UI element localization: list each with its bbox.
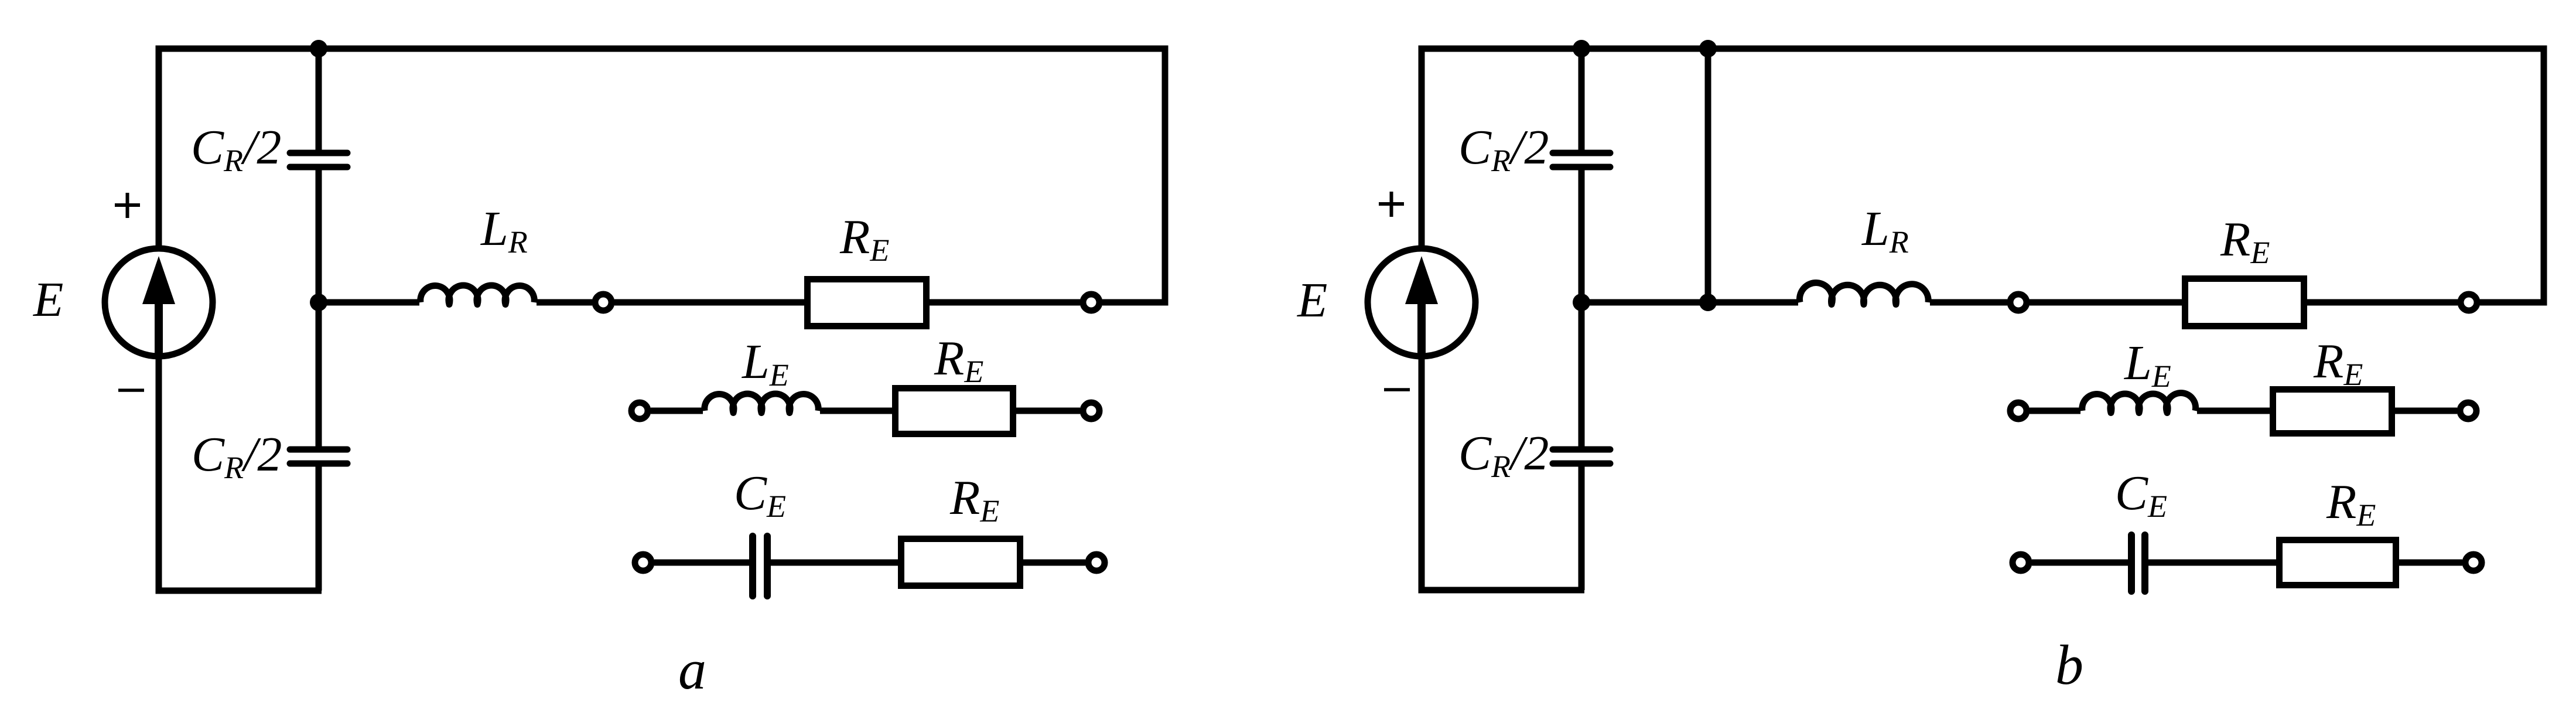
svg-text:CR/2: CR/2 [1458, 120, 1549, 178]
wire [771, 560, 898, 566]
resistor RE of LE branch [896, 389, 1013, 434]
wire: left-top + top wire + right wire + mid right stub [159, 49, 1165, 302]
plus sign [115, 193, 140, 218]
wire [2148, 560, 2276, 566]
branch LE+RE: left terminal [2010, 403, 2027, 419]
wire: inductor to terminal [1930, 299, 2007, 306]
resistor RE of CE branch [901, 539, 1020, 586]
right terminal [2460, 403, 2476, 419]
svg-text:RE: RE [2326, 475, 2376, 533]
capacitor CR/2 top: plates [1553, 153, 1610, 167]
wire [2197, 408, 2270, 414]
source E (circle with up arrow) [105, 248, 213, 356]
wire [1016, 408, 1080, 414]
svg-text:CE: CE [2115, 466, 2167, 524]
branch LE+RE: left terminal [631, 403, 648, 419]
svg-text:RE: RE [2313, 334, 2363, 392]
node dot mid 2 [1699, 294, 1717, 311]
wire: resistor to terminal [930, 299, 1080, 306]
parallel wire branch [1705, 49, 1711, 302]
resistor RE main [2185, 279, 2304, 326]
node dot mid 1 [1573, 294, 1590, 311]
resistor RE of CE branch [2280, 540, 2396, 585]
arrow shaft of E [1417, 296, 1426, 352]
svg-text:CR/2: CR/2 [192, 427, 282, 485]
svg-text:LE: LE [2124, 336, 2171, 394]
wire: terminal to resistor [2030, 299, 2182, 306]
svg-text:RE: RE [2220, 212, 2270, 270]
wire: capacitor branch upper [1579, 49, 1585, 150]
right terminal [1083, 403, 1099, 419]
resistor RE main [808, 280, 927, 326]
minus sign [118, 389, 144, 392]
arrow shaft of E [155, 296, 163, 352]
wire [651, 408, 703, 414]
wire [2395, 408, 2457, 414]
svg-text:RE: RE [949, 471, 999, 529]
open terminal [595, 294, 611, 311]
svg-text:a: a [678, 638, 706, 701]
svg-text:RE: RE [934, 331, 983, 389]
inductor LR [421, 285, 534, 304]
wire: left-top + top wire + right wire + mid right stub [1422, 49, 2544, 302]
arrowhead of E [142, 256, 175, 304]
wire: capacitor branch lower [1579, 466, 1585, 590]
svg-text:RE: RE [839, 210, 889, 268]
wire [2032, 560, 2128, 566]
svg-text:LR: LR [480, 202, 528, 260]
wire [2399, 560, 2462, 566]
wire: capacitor branch middle [1579, 170, 1585, 447]
arrowhead of E [1405, 256, 1438, 304]
inductor LE [705, 394, 818, 413]
svg-text:b: b [2055, 633, 2083, 696]
source E (circle with up arrow) [1368, 248, 1475, 356]
wire [654, 560, 749, 566]
wire: left-bottom + bottom wire [159, 354, 322, 591]
wire: left-bottom + bottom wire [1422, 354, 1584, 590]
wire: capacitor branch upper [316, 49, 322, 150]
node dot top 2 [1699, 40, 1717, 57]
capacitor CR/2 bottom: plates [290, 449, 347, 464]
wire [820, 408, 892, 414]
open terminal [1083, 294, 1099, 311]
svg-text:LR: LR [1861, 202, 1909, 260]
capacitor CR/2 bottom: plates [1553, 449, 1610, 464]
branch CE+RE: left terminal [635, 554, 651, 571]
branch CE+RE: left terminal [2013, 554, 2029, 571]
right terminal [2465, 554, 2482, 571]
wire: mid branch to inductor [319, 299, 419, 306]
minus sign [1384, 388, 1410, 391]
wire: capacitor branch middle [316, 170, 322, 447]
resistor RE of LE branch [2273, 390, 2392, 434]
capacitor CE plates [753, 536, 767, 596]
open terminal [2010, 294, 2027, 311]
node dot middle [310, 294, 327, 311]
capacitor CE plates [2131, 535, 2145, 591]
right terminal [1088, 554, 1105, 571]
inductor LE [2082, 393, 2196, 413]
plus sign [1379, 192, 1404, 217]
wire: terminal to resistor [614, 299, 804, 306]
capacitor CR/2 top: plates [290, 153, 347, 167]
wire: inductor to terminal [537, 299, 592, 306]
node dot top [310, 40, 327, 57]
svg-text:E: E [1297, 273, 1327, 328]
wire [1023, 560, 1085, 566]
svg-text:CR/2: CR/2 [1458, 426, 1549, 484]
node dot top 1 [1573, 40, 1590, 57]
svg-text:CR/2: CR/2 [191, 120, 281, 178]
svg-text:E: E [33, 272, 63, 327]
wire: mid branch to inductor [1581, 299, 1798, 306]
svg-text:LE: LE [742, 335, 789, 393]
open terminal [2461, 294, 2477, 311]
svg-text:CE: CE [734, 466, 786, 524]
wire [2030, 408, 2080, 414]
inductor LR [1799, 283, 1928, 305]
wire: capacitor branch lower [316, 466, 322, 591]
wire: resistor to terminal [2307, 299, 2458, 306]
